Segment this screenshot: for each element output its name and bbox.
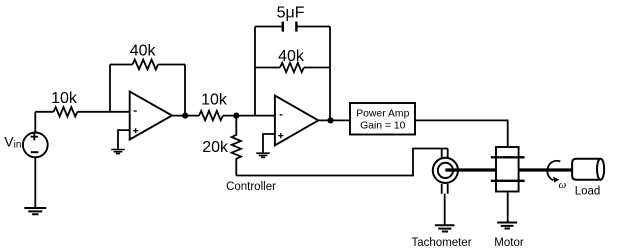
load L1 (cylinder) (572, 159, 604, 180)
svg-text:40k: 40k (278, 48, 305, 65)
wire feedback right vertical down to U1 output node (184, 65, 186, 116)
wire feedback left vertical (U1) (109, 65, 111, 112)
op-amp U1 (130, 92, 172, 140)
resistor R3 10k (199, 111, 223, 120)
wire feedback top left segment (U1) (110, 64, 133, 66)
svg-text:ω: ω (559, 179, 567, 191)
op-amp U2 (275, 96, 318, 146)
capacitor C1 5uF (283, 22, 297, 32)
wire motor bottom to ground (507, 192, 509, 223)
svg-text:40k: 40k (130, 43, 157, 60)
svg-text:10k: 10k (201, 91, 228, 108)
rotation arrow omega (547, 161, 560, 183)
motor M1 (491, 147, 525, 192)
shaft tachometer to motor (445, 168, 496, 171)
wire U1 + input to ground (118, 130, 130, 149)
svg-text:Power Amp: Power Amp (356, 108, 409, 119)
wire U2 feedback left vertical (254, 27, 256, 116)
svg-text:Motor: Motor (494, 237, 524, 249)
wire U2 feedback right vertical down to output node (329, 27, 331, 121)
wire Vin bottom to ground (34, 157, 36, 207)
wire feedback top right segment (U1) (158, 64, 185, 66)
power amp block (350, 103, 415, 135)
wire U1 output to node A (172, 115, 199, 117)
wire power amp output to motor (415, 120, 508, 147)
node A (U1 output junction) (182, 113, 188, 119)
svg-text:Gain = 10: Gain = 10 (360, 121, 406, 132)
wire 40k feedback right lead (U2) (304, 67, 330, 69)
resistor R1 10k (54, 107, 78, 116)
tachometer bottom terminals (442, 184, 448, 194)
wire capacitor right lead (298, 26, 331, 28)
wire R3 to op-amp U2 inverting input (223, 115, 275, 117)
svg-text:5μF: 5μF (277, 4, 305, 21)
tachometer T1 (433, 158, 458, 183)
resistor R2 40k (U1 feedback) (133, 60, 159, 70)
svg-text:Load: Load (575, 186, 601, 198)
wire tachometer to ground (444, 194, 446, 225)
voltage source Vin (23, 133, 48, 158)
svg-text:Controller: Controller (226, 181, 276, 193)
svg-text:20k: 20k (202, 139, 229, 156)
wire U2 output to power amp (318, 119, 350, 121)
ground (U1 + input) (111, 150, 125, 154)
wire U2 + input to ground (263, 134, 275, 153)
resistor R5 40k (U2 feedback) (280, 63, 304, 72)
wire input to resistor R1 (35, 111, 53, 113)
ground (tachometer) (435, 225, 455, 231)
wire tachometer feedback (bottom run) (236, 149, 447, 176)
ground (U2 + input) (256, 153, 270, 157)
svg-text:Tachometer: Tachometer (411, 237, 471, 249)
wire capacitor left lead (255, 26, 282, 28)
shaft motor to load (519, 168, 573, 171)
resistor R4 20k (vertical) (232, 116, 241, 176)
wire Vin top to input node (34, 112, 36, 133)
wire 40k feedback left lead (U2) (255, 67, 280, 69)
wire R1 to op-amp U1 inverting input (77, 111, 129, 113)
tachometer top terminals (442, 149, 448, 159)
ground (motor) (497, 223, 517, 229)
ground (under Vin) (24, 208, 46, 214)
node C (U2 output junction) (327, 117, 333, 123)
node B (summing junction) (233, 113, 239, 119)
svg-text:10k: 10k (51, 90, 78, 107)
